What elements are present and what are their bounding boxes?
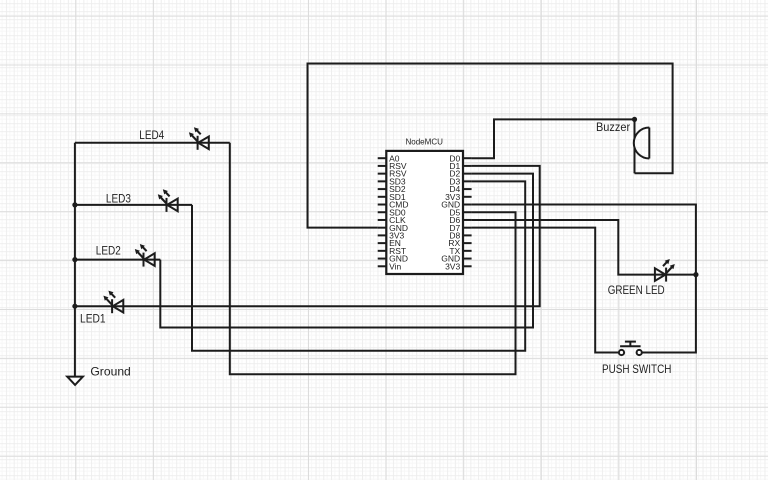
pin stub left CMD	[378, 204, 387, 206]
wire: buzzer top lead	[634, 119, 636, 139]
push switch SW1	[619, 342, 642, 356]
LED symbol LED4	[189, 127, 209, 150]
node: bus-LED2 junction	[72, 257, 77, 262]
pin stub left Vin	[378, 265, 387, 267]
node: rail-green-led junction	[693, 272, 698, 277]
pin stub left SD0	[378, 211, 387, 213]
wire: buzzer bottom lead	[634, 147, 636, 173]
pin stub right D0	[463, 157, 472, 159]
svg-text:Vin: Vin	[389, 261, 401, 271]
svg-text:LED1: LED1	[80, 311, 106, 325]
svg-text:GREEN LED: GREEN LED	[608, 283, 665, 297]
svg-text:LED4: LED4	[139, 128, 164, 142]
pin stub right D6	[463, 219, 472, 221]
wire: LED4 to pin D5	[230, 143, 516, 374]
pin stub right RX	[463, 242, 472, 244]
wire: D7 to push switch left terminal	[472, 228, 619, 353]
pin stub right 3V3	[463, 196, 472, 198]
svg-text:NodeMCU: NodeMCU	[405, 138, 443, 147]
wire: D0 to buzzer	[472, 119, 635, 158]
svg-text:3V3: 3V3	[445, 261, 460, 271]
svg-text:Ground: Ground	[90, 364, 130, 378]
wire: LED3 row	[75, 204, 192, 206]
wire: left ground bus	[74, 143, 76, 378]
wire: LED1 row to pin D1	[75, 166, 540, 306]
wire: LED4 row	[75, 142, 230, 144]
svg-text:LED3: LED3	[106, 191, 131, 205]
pin stub left CLK	[378, 219, 387, 221]
pin stub right D5	[463, 211, 472, 213]
pin stub right D4	[463, 188, 472, 190]
pin stub left GND	[378, 258, 387, 260]
pin stub right D2	[463, 173, 472, 175]
svg-text:PUSH SWITCH: PUSH SWITCH	[602, 362, 671, 376]
svg-text:Buzzer: Buzzer	[596, 120, 630, 134]
pin stub right TX	[463, 250, 472, 252]
wire: left GND pin to top loop to buzzer bottom	[308, 64, 673, 228]
node: bus-LED1 junction	[72, 304, 77, 309]
pin stub left A0	[378, 157, 387, 159]
pin stub right GND	[463, 258, 472, 260]
pin stub right D1	[463, 165, 472, 167]
pin stub left EN	[378, 242, 387, 244]
svg-text:LED2: LED2	[96, 243, 121, 257]
pin stub right D7	[463, 227, 472, 229]
pin stub left SD1	[378, 196, 387, 198]
pin stub left SD2	[378, 188, 387, 190]
NodeMCU U1	[386, 151, 463, 274]
pin stub right D3	[463, 180, 472, 182]
pin stub left RSV	[378, 165, 387, 167]
pin stub left SD3	[378, 180, 387, 182]
pin stub left RSV	[378, 173, 387, 175]
wire: GND pin to right rail and switch right terminal	[472, 205, 696, 353]
pin stub right 3V3	[463, 265, 472, 267]
wire: LED2 to pin D2	[160, 174, 533, 328]
pin stub right D8	[463, 234, 472, 236]
node: buzzer top junction	[632, 117, 637, 122]
wire: D6 to GREEN LED to rail	[472, 220, 696, 275]
wire: LED2 row	[75, 259, 160, 261]
LED symbol LED2	[135, 244, 155, 267]
ground symbol	[67, 377, 83, 385]
node: bus-LED3 junction	[72, 202, 77, 207]
LED symbol LED3	[158, 189, 178, 212]
pin stub left RST	[378, 250, 387, 252]
pin stub right GND	[463, 204, 472, 206]
wire: LED3 to pin D3	[192, 181, 525, 350]
pin stub left 3V3	[378, 234, 387, 236]
LED symbol LED1	[103, 291, 123, 314]
buzzer BZ1	[634, 128, 650, 159]
LED symbol GREEN LED	[655, 259, 675, 282]
pin stub left GND	[378, 227, 387, 229]
